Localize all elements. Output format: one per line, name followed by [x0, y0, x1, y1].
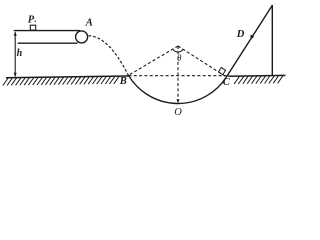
svg-text:O: O [174, 107, 182, 118]
svg-text:A: A [85, 17, 93, 28]
svg-text:B: B [119, 76, 127, 87]
svg-text:θ: θ [177, 53, 182, 63]
svg-text:D: D [236, 29, 245, 40]
svg-text:C: C [223, 77, 231, 88]
svg-text:h: h [17, 48, 23, 59]
svg-text:P: P [28, 15, 35, 26]
